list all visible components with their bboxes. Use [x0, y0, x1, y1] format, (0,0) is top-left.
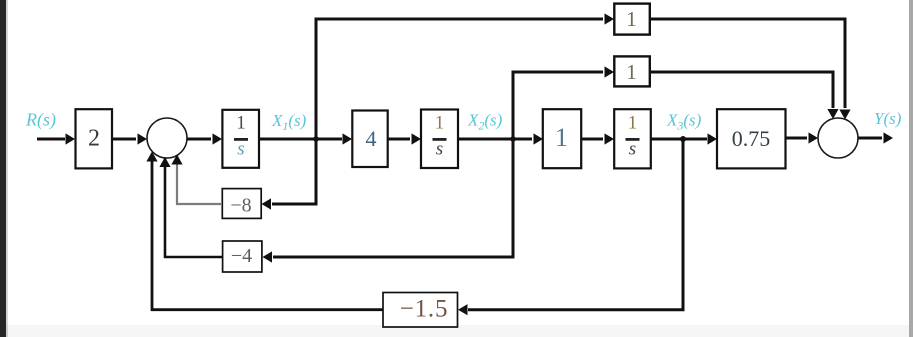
wire: 1/s output through node X1 into block 4: [259, 138, 342, 141]
svg-text:s: s: [629, 139, 636, 160]
svg-text:1: 1: [626, 7, 637, 31]
block integrator 1/s (third): [614, 109, 651, 168]
wire: block -4 output left and up into S1: [165, 158, 223, 257]
right gray border strip: [909, 0, 913, 337]
wire: 0.75 to summing junction S2: [786, 137, 807, 140]
svg-text:s: s: [237, 139, 244, 160]
node X1 junction dot: [313, 136, 319, 142]
block gain -8: [222, 189, 261, 219]
svg-text:1: 1: [236, 112, 246, 133]
left dark border strip: [0, 0, 6, 337]
wire: S1 to integrator 1/s (first): [188, 138, 212, 141]
svg-text:2: 2: [88, 126, 100, 152]
block gain 2: [76, 109, 113, 168]
bottom light band: [6, 325, 909, 337]
svg-text:R(s): R(s): [25, 110, 56, 131]
node X3 junction dot: [680, 136, 686, 142]
wire: from node X2 down to block -4 input: [273, 139, 513, 257]
block gain 4: [352, 111, 387, 168]
svg-text:X3(s): X3(s): [666, 111, 702, 133]
svg-text:X2(s): X2(s): [467, 111, 503, 133]
wire: from node X1 down to block -8 input: [272, 139, 316, 204]
svg-text:0.75: 0.75: [732, 126, 771, 151]
block gain 0.75: [717, 109, 786, 168]
svg-text:−8: −8: [230, 194, 251, 216]
wire: block -8 output left and up into S1 (thin gray): [177, 156, 222, 204]
block gain 1 (top first): [614, 4, 650, 35]
wire: S2 output Y(s): [859, 137, 883, 140]
svg-text:Y(s): Y(s): [874, 109, 902, 128]
block gain 1 (middle): [543, 109, 581, 168]
wire: input R(s) into block 2: [37, 138, 65, 141]
summing junction S2: [818, 118, 858, 158]
wire: 1/s output through node X2 into block 1 (middle): [458, 138, 532, 141]
svg-text:4: 4: [366, 126, 377, 151]
block gain -4: [223, 241, 262, 272]
wire: feedforward from node X2 up and right to second top block 1: [513, 72, 603, 139]
svg-text:−4: −4: [231, 245, 252, 267]
svg-text:1: 1: [435, 112, 445, 133]
block integrator 1/s (second): [421, 110, 458, 169]
wire: second top block 1 output right and down into S2: [650, 72, 833, 108]
wire: block 4 to integrator 1/s (second): [388, 138, 410, 141]
svg-text:1: 1: [628, 112, 638, 133]
block gain 1 (top second): [614, 56, 650, 86]
wire: block 1 to integrator 1/s (third): [581, 138, 603, 141]
wire: top block 1 output right and down into S2: [650, 19, 845, 108]
wire: block 2 to summing junction S1: [112, 138, 136, 141]
svg-text:s: s: [436, 139, 443, 160]
wire: block -1.5 output left and up into S1: [152, 154, 383, 310]
svg-text:1: 1: [626, 60, 637, 84]
block gain -1.5: [383, 293, 458, 328]
node X2 junction dot: [510, 136, 516, 142]
summing junction S1: [147, 118, 187, 158]
wire: 1/s output through node X3 into block 0.75: [651, 138, 707, 141]
block integrator 1/s (first): [222, 110, 259, 168]
svg-text:−1.5: −1.5: [400, 296, 449, 323]
wire: from node X3 down to block -1.5 input: [468, 139, 683, 310]
svg-text:1: 1: [555, 123, 568, 152]
svg-text:X1(s): X1(s): [271, 111, 307, 133]
wire: feedforward from node X1 up and right to top block 1: [316, 19, 603, 139]
